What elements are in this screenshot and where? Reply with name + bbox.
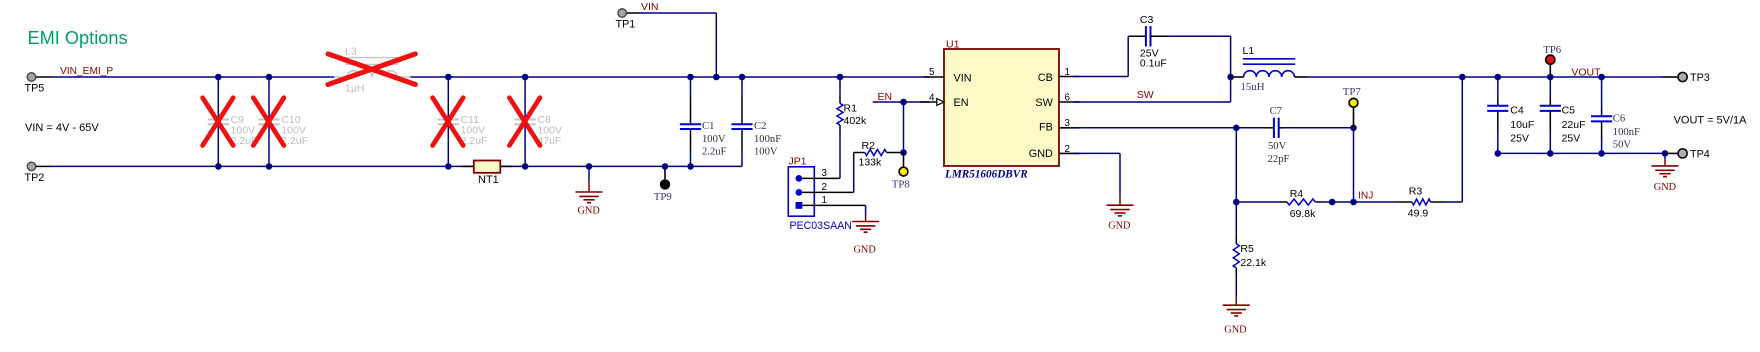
svg-text:2.2uF: 2.2uF bbox=[702, 147, 727, 158]
junction C10 bottom bbox=[266, 163, 273, 170]
svg-text:100nF: 100nF bbox=[1613, 127, 1640, 138]
svg-text:EN: EN bbox=[878, 91, 893, 103]
svg-text:133k: 133k bbox=[859, 157, 883, 169]
testpoint TP6 bbox=[1543, 44, 1562, 77]
svg-text:FB: FB bbox=[1039, 121, 1053, 133]
junction C6 bottom bbox=[1598, 150, 1605, 157]
junction R4 left / R5 top bbox=[1233, 199, 1240, 206]
wire VOUT rail bbox=[1307, 76, 1663, 78]
svg-text:INJ: INJ bbox=[1358, 190, 1373, 201]
svg-text:TP6: TP6 bbox=[1543, 44, 1562, 56]
svg-text:U1: U1 bbox=[946, 38, 960, 50]
note VOUT = 5V/1A bbox=[1674, 115, 1748, 127]
junction C9 top bbox=[215, 74, 222, 81]
svg-text:C7: C7 bbox=[1270, 106, 1282, 117]
svg-text:PEC03SAAN: PEC03SAAN bbox=[790, 220, 852, 232]
svg-text:402k: 402k bbox=[844, 115, 868, 127]
DNP cross over L3 bbox=[328, 54, 415, 85]
wire output ground rail bbox=[1498, 152, 1665, 154]
svg-text:R2: R2 bbox=[862, 140, 876, 152]
junction FB right (TP7) bbox=[1350, 125, 1357, 132]
inductor L1 bbox=[1231, 45, 1307, 93]
junction C2 top bbox=[739, 74, 746, 81]
svg-text:5: 5 bbox=[929, 67, 935, 78]
svg-text:50V: 50V bbox=[1268, 141, 1287, 152]
testpoint TP7 bbox=[1343, 86, 1362, 128]
designator U1 bbox=[946, 38, 960, 50]
junction EN bbox=[900, 99, 907, 106]
resistor R3 bbox=[1354, 77, 1463, 219]
svg-text:1µH: 1µH bbox=[345, 83, 364, 95]
junction C6 top bbox=[1598, 74, 1605, 81]
inductor L3 (DNP, gray) bbox=[334, 46, 410, 95]
wire FB bbox=[1074, 127, 1264, 129]
svg-text:VIN_EMI_P: VIN_EMI_P bbox=[60, 66, 113, 77]
svg-text:TP4: TP4 bbox=[1690, 148, 1710, 160]
svg-text:GND: GND bbox=[1654, 182, 1677, 193]
wire FB node down to R4/R5 bbox=[1235, 128, 1237, 202]
pin 2 GND bbox=[1059, 144, 1080, 155]
svg-text:100V: 100V bbox=[754, 147, 778, 158]
svg-text:TP8: TP8 bbox=[892, 179, 910, 191]
pin 5 VIN bbox=[924, 67, 944, 78]
svg-text:C6: C6 bbox=[1613, 114, 1625, 125]
resistor R4 bbox=[1236, 188, 1353, 220]
resistor R1 bbox=[837, 77, 867, 178]
net label EN bbox=[878, 91, 893, 103]
designator JP1 bbox=[789, 155, 807, 167]
junction R2 right bbox=[900, 149, 907, 156]
svg-text:3: 3 bbox=[1065, 118, 1071, 129]
capacitor C10 (DNP, gray) bbox=[258, 77, 308, 166]
capacitor C8 (DNP, gray) bbox=[515, 77, 562, 166]
ground (U1) bbox=[1107, 194, 1134, 232]
wire bottom rail bbox=[52, 165, 742, 167]
testpoint TP1 bbox=[616, 9, 642, 31]
svg-text:100V: 100V bbox=[702, 134, 726, 145]
pin 1 CB bbox=[1059, 67, 1080, 78]
svg-text:69.8k: 69.8k bbox=[1290, 208, 1316, 220]
capacitor C1 bbox=[680, 77, 727, 166]
DNP cross over C9 bbox=[203, 98, 234, 146]
testpoint TP5 bbox=[25, 73, 53, 95]
junction C5 top bbox=[1547, 74, 1554, 81]
net-tie NT1 bbox=[462, 161, 512, 187]
svg-text:50V: 50V bbox=[1613, 140, 1632, 151]
wire TP1 to VIN rail bbox=[641, 13, 716, 77]
capacitor C6 bbox=[1591, 77, 1640, 153]
svg-text:22.1k: 22.1k bbox=[1240, 257, 1266, 269]
svg-text:1: 1 bbox=[1065, 67, 1070, 78]
svg-text:SW: SW bbox=[1137, 89, 1154, 101]
junction TP1 riser bbox=[713, 74, 720, 81]
op-amp/regulator U1 LMR51606DBVR bbox=[944, 49, 1059, 166]
pin 3 FB bbox=[1059, 118, 1080, 129]
junction C4 top bbox=[1495, 74, 1502, 81]
DNP cross over C8 bbox=[509, 98, 540, 146]
svg-text:TP7: TP7 bbox=[1343, 86, 1362, 98]
svg-text:VOUT = 5V/1A: VOUT = 5V/1A bbox=[1674, 115, 1748, 127]
svg-text:JP1: JP1 bbox=[789, 155, 807, 167]
svg-text:L1: L1 bbox=[1243, 45, 1255, 57]
ground (bottom rail) bbox=[576, 166, 603, 216]
svg-text:GND: GND bbox=[1029, 148, 1053, 160]
net label VOUT bbox=[1571, 66, 1601, 78]
svg-text:25V: 25V bbox=[1562, 133, 1581, 145]
svg-text:2: 2 bbox=[1065, 144, 1070, 155]
resistor R5 bbox=[1233, 202, 1267, 296]
net label SW bbox=[1137, 89, 1154, 101]
svg-text:C2: C2 bbox=[754, 121, 766, 132]
svg-text:2: 2 bbox=[822, 182, 827, 193]
svg-text:TP5: TP5 bbox=[25, 83, 45, 95]
connector JP1 bbox=[788, 167, 865, 216]
testpoint TP9 bbox=[654, 166, 672, 203]
ground (JP1) bbox=[852, 215, 879, 255]
capacitor C11 (DNP, gray) bbox=[438, 77, 488, 166]
net label VIN_EMI_P bbox=[60, 66, 113, 77]
pin 4 EN with input arrow bbox=[920, 92, 944, 105]
junction C8 top bbox=[522, 74, 529, 81]
svg-text:VIN: VIN bbox=[641, 1, 659, 13]
junction C1 top bbox=[687, 74, 694, 81]
testpoint TP4 bbox=[1665, 148, 1710, 160]
net label VIN bbox=[641, 1, 659, 13]
svg-text:100nF: 100nF bbox=[754, 134, 781, 145]
junction FB left bbox=[1233, 125, 1240, 132]
ground (R5) bbox=[1223, 296, 1250, 336]
svg-text:22pF: 22pF bbox=[1268, 154, 1290, 165]
junction C11 top bbox=[445, 74, 452, 81]
junction C10 top bbox=[266, 74, 273, 81]
svg-text:SW: SW bbox=[1035, 97, 1053, 109]
svg-text:TP1: TP1 bbox=[616, 19, 636, 31]
svg-text:49.9: 49.9 bbox=[1408, 207, 1429, 219]
junction C8 bottom bbox=[522, 163, 529, 170]
title EMI Options bbox=[28, 28, 128, 48]
svg-text:VIN: VIN bbox=[954, 73, 972, 85]
svg-text:1: 1 bbox=[822, 195, 827, 206]
svg-text:EN: EN bbox=[954, 97, 969, 109]
svg-text:NT1: NT1 bbox=[478, 174, 499, 186]
wire TP7 node down to INJ bbox=[1353, 128, 1355, 202]
wire VIN rail (right of L3) bbox=[411, 76, 930, 78]
junction R3 riser at VOUT rail bbox=[1459, 74, 1466, 81]
junction TP9 stem bbox=[662, 163, 669, 170]
capacitor C4 bbox=[1487, 77, 1534, 153]
svg-text:R3: R3 bbox=[1409, 185, 1423, 197]
testpoint TP8 bbox=[892, 153, 910, 191]
svg-text:6: 6 bbox=[1065, 93, 1071, 104]
testpoint TP3 bbox=[1663, 72, 1710, 84]
svg-text:TP2: TP2 bbox=[25, 172, 45, 184]
capacitor C5 bbox=[1540, 77, 1586, 153]
svg-text:EMI Options: EMI Options bbox=[28, 28, 128, 48]
wire JP1 pin1 to ground bbox=[865, 205, 867, 215]
svg-text:C4: C4 bbox=[1510, 104, 1524, 116]
wire EN bbox=[873, 102, 929, 153]
svg-text:GND: GND bbox=[1108, 221, 1131, 232]
capacitor C3 bbox=[1128, 14, 1167, 70]
junction INJ node bbox=[1350, 199, 1357, 206]
svg-text:25V: 25V bbox=[1510, 133, 1529, 145]
svg-text:R5: R5 bbox=[1240, 243, 1254, 255]
svg-text:VOUT: VOUT bbox=[1571, 66, 1601, 78]
junction GND stem bbox=[586, 163, 593, 170]
svg-text:L3: L3 bbox=[345, 46, 357, 58]
resistor R2 bbox=[854, 140, 904, 193]
DNP cross over C10 bbox=[253, 98, 284, 146]
svg-text:C5: C5 bbox=[1562, 104, 1576, 116]
ground (output) bbox=[1652, 153, 1679, 193]
wire C3 to SW node bbox=[1167, 36, 1231, 77]
wire SW bbox=[1074, 77, 1231, 102]
junction SW node bbox=[1227, 74, 1234, 81]
svg-text:TP3: TP3 bbox=[1690, 72, 1710, 84]
junction R4 right bbox=[1329, 199, 1336, 206]
wire VIN rail (left of L3) bbox=[52, 76, 334, 78]
svg-text:C3: C3 bbox=[1140, 14, 1154, 26]
svg-text:CB: CB bbox=[1038, 72, 1053, 84]
svg-text:15uH: 15uH bbox=[1241, 81, 1265, 93]
wire FB right of C7 bbox=[1283, 127, 1354, 129]
capacitor C7 bbox=[1264, 106, 1289, 165]
junction C1 bottom bbox=[687, 163, 694, 170]
wire CB to C3 bbox=[1074, 36, 1128, 76]
junction C11 bottom bbox=[445, 163, 452, 170]
net label INJ bbox=[1358, 190, 1373, 201]
svg-text:GND: GND bbox=[578, 206, 601, 217]
svg-text:C1: C1 bbox=[702, 121, 714, 132]
pin 6 SW bbox=[1059, 93, 1080, 104]
svg-text:0.1uF: 0.1uF bbox=[1140, 58, 1167, 70]
svg-text:4: 4 bbox=[929, 92, 935, 103]
svg-text:22uF: 22uF bbox=[1562, 119, 1586, 131]
wire U1 GND pin bbox=[1074, 153, 1120, 194]
value PEC03SAAN bbox=[790, 220, 852, 232]
svg-text:GND: GND bbox=[854, 244, 877, 255]
value LMR51606DBVR bbox=[944, 168, 1028, 180]
svg-text:R4: R4 bbox=[1290, 188, 1304, 200]
svg-text:VIN = 4V - 65V: VIN = 4V - 65V bbox=[25, 122, 99, 134]
DNP cross over C11 bbox=[433, 98, 464, 146]
svg-text:TP9: TP9 bbox=[654, 191, 672, 203]
svg-text:GND: GND bbox=[1224, 325, 1247, 336]
testpoint TP2 bbox=[25, 162, 53, 184]
svg-text:10uF: 10uF bbox=[1510, 119, 1534, 131]
capacitor C9 (DNP, gray) bbox=[208, 77, 258, 166]
capacitor C2 bbox=[731, 77, 781, 166]
svg-text:LMR51606DBVR: LMR51606DBVR bbox=[944, 168, 1028, 180]
junction C5 bottom bbox=[1547, 150, 1554, 157]
svg-text:3: 3 bbox=[822, 168, 828, 179]
note VIN = 4V - 65V bbox=[25, 122, 99, 134]
junction C9 bottom bbox=[215, 163, 222, 170]
junction R1 top bbox=[837, 74, 844, 81]
junction output gnd stem bbox=[1662, 150, 1669, 157]
junction C4 bottom bbox=[1495, 150, 1502, 157]
svg-text:R1: R1 bbox=[844, 102, 858, 114]
